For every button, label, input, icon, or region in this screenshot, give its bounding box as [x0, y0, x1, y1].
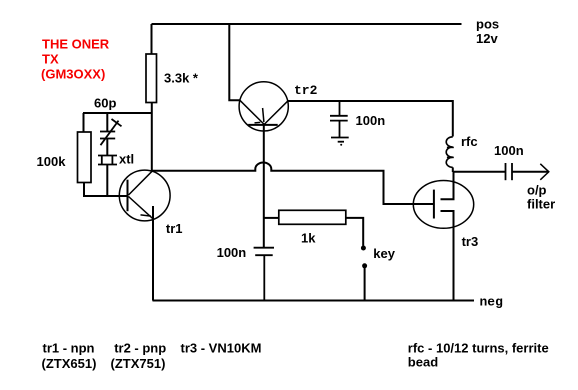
svg-text:60p: 60p [94, 96, 116, 111]
resistor 1k [279, 210, 346, 224]
wire oscillator node horizontal [83, 112, 152, 114]
wire rfc bottom to tr3 drain junction [452, 167, 454, 172]
svg-text:xtl: xtl [119, 152, 134, 167]
inductor rfc [446, 137, 454, 168]
wire to output arrow [512, 171, 549, 173]
svg-text:pos: pos [476, 17, 499, 32]
svg-text:TX: TX [42, 52, 59, 67]
resistor 3.3k [146, 54, 157, 103]
wire tr2 emitter to positive rail [229, 24, 239, 100]
wire output [453, 171, 506, 173]
wire top positive rail [152, 23, 462, 25]
capacitor trimmer 60p [100, 119, 122, 145]
wire crystal bottom lead [106, 165, 108, 197]
svg-text:(ZTX751): (ZTX751) [111, 356, 166, 371]
transistor tr3 [413, 172, 473, 301]
capacitor 100n tr2 base [254, 248, 274, 301]
wire trimmer top lead [106, 113, 108, 131]
svg-text:rfc - 10/12 turns, ferrite: rfc - 10/12 turns, ferrite [408, 341, 549, 356]
svg-text:o/p: o/p [527, 182, 547, 197]
title THE ONER TX (GM3OXX) [41, 37, 110, 82]
wire bottom negative rail [153, 300, 475, 302]
svg-text:rfc: rfc [461, 134, 478, 149]
wire tr2 base lead down through hop [263, 125, 265, 248]
svg-text:bead: bead [408, 355, 438, 370]
wire tr2 collector to rfc top [288, 101, 453, 137]
svg-text:1k: 1k [301, 230, 316, 245]
svg-text:3.3k *: 3.3k * [164, 71, 199, 86]
resistor 100k [78, 132, 92, 183]
wire key to neg rail [364, 268, 366, 301]
node key bottom [362, 263, 367, 268]
transistor tr1 [119, 170, 170, 221]
svg-text:neg: neg [480, 295, 504, 310]
wire 3.3k top lead [151, 24, 153, 54]
capacitor 100n coupling [506, 163, 513, 180]
svg-text:100n: 100n [356, 113, 386, 128]
transistor tr2 [239, 82, 288, 131]
svg-text:100n: 100n [494, 143, 524, 158]
caption transistor types [42, 341, 262, 372]
arrow output [540, 164, 549, 180]
capacitor 100n decoupling [330, 101, 348, 138]
svg-text:12v: 12v [476, 31, 498, 46]
svg-text:100k: 100k [37, 154, 67, 169]
svg-text:key: key [373, 246, 395, 261]
label pos 12v [476, 17, 499, 47]
wire tr1 collector to tr3 gate with hop over tr2 base [152, 163, 434, 204]
label o/p filter [527, 182, 555, 211]
wire 100k top lead [83, 113, 85, 132]
svg-text:THE ONER: THE ONER [42, 37, 110, 52]
svg-text:tr3 - VN10KM: tr3 - VN10KM [181, 341, 262, 356]
wire 100k bottom lead to tr1 base [84, 183, 128, 197]
svg-text:tr3: tr3 [462, 234, 479, 249]
svg-text:(ZTX651): (ZTX651) [42, 356, 97, 371]
wire 1k left lead [264, 217, 279, 219]
svg-text:filter: filter [527, 197, 555, 212]
wire 3.3k bottom to tr1 collector [151, 103, 153, 172]
svg-text:(GM3OXX): (GM3OXX) [41, 67, 105, 82]
svg-text:tr2 - pnp: tr2 - pnp [114, 341, 166, 356]
svg-text:tr2: tr2 [294, 83, 318, 98]
svg-text:100n: 100n [217, 245, 247, 260]
ground [331, 138, 349, 142]
crystal xtl [98, 156, 117, 165]
wire tr1 emitter to neg rail [152, 206, 154, 301]
wire 1k right lead to key [346, 218, 363, 246]
wire trimmer to crystal [106, 139, 108, 156]
node key top [361, 246, 366, 251]
svg-text:tr1 - npn: tr1 - npn [43, 341, 95, 356]
caption rfc note [408, 341, 549, 370]
svg-text:tr1: tr1 [166, 221, 183, 236]
